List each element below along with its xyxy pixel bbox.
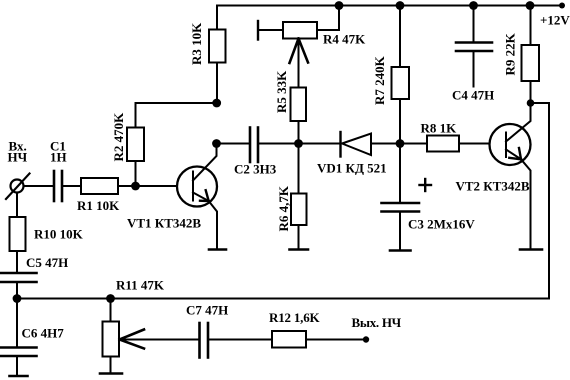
- resistor R6: [291, 194, 307, 226]
- terminal +12V: [559, 3, 565, 9]
- wire R6 bottom lead: [298, 225, 300, 249]
- wire C5 to node: [16, 282, 18, 299]
- wire R8 to VT2 base: [459, 143, 490, 145]
- wiper R4 arrow: [290, 39, 309, 64]
- resistor R8: [427, 136, 459, 152]
- resistor R3: [209, 30, 226, 63]
- svg-text:R11 47K: R11 47K: [116, 278, 165, 293]
- svg-text:R2 470K: R2 470K: [111, 112, 126, 162]
- wire input down to R10: [16, 193, 18, 218]
- input terminal Вх. НЧ: [6, 174, 30, 200]
- svg-text:R4 47K: R4 47K: [323, 32, 366, 47]
- resistor R7: [392, 67, 410, 99]
- capacitor C7: [200, 323, 209, 358]
- wire C3 top lead: [399, 144, 401, 204]
- wire R3 top lead: [216, 6, 218, 30]
- resistor R12: [272, 331, 306, 348]
- wire top +12V rail: [217, 5, 562, 7]
- wire C3 bottom lead: [399, 212, 401, 251]
- wire R2 bottom lead: [135, 161, 137, 186]
- wire C4 top lead: [473, 6, 475, 43]
- wire C4 bottom lead: [473, 51, 475, 87]
- wire R7 bottom lead: [399, 99, 401, 144]
- transistor VT1: [177, 144, 217, 249]
- wire VD1 to node: [371, 143, 400, 145]
- wire R4 right lead to rail: [317, 6, 339, 31]
- svg-text:C4 47Н: C4 47Н: [452, 88, 494, 103]
- wire R7 top lead: [399, 6, 401, 68]
- capacitor C1: [54, 171, 62, 201]
- capacitor C6: [1, 348, 37, 357]
- wire R9 bottom lead: [530, 81, 532, 103]
- wire R8 left lead: [400, 143, 427, 145]
- node R7/C3/R8: [396, 139, 405, 148]
- node C5/C6 feedback: [13, 294, 22, 303]
- svg-text:VD1 КД 521: VD1 КД 521: [317, 161, 387, 176]
- capacitor C5: [1, 273, 37, 282]
- resistor R1: [81, 178, 118, 194]
- svg-text:R3 10K: R3 10K: [189, 22, 204, 65]
- svg-text:R9 22K: R9 22K: [503, 32, 518, 75]
- wire R11 wiper to C7: [120, 339, 200, 341]
- capacitor C3: [382, 203, 420, 212]
- ground VT2 emitter: [520, 248, 542, 251]
- capacitor C2: [250, 128, 258, 163]
- svg-text:VT2 КТ342В: VT2 КТ342В: [456, 179, 530, 194]
- svg-text:R10 10K: R10 10K: [34, 227, 84, 242]
- node R7 rail junction: [396, 1, 405, 10]
- svg-text:C6 4Н7: C6 4Н7: [22, 326, 65, 341]
- wire R9 top lead: [530, 6, 532, 46]
- svg-text:НЧ: НЧ: [8, 150, 28, 165]
- ground R11: [100, 372, 122, 375]
- output terminal Вых. НЧ: [363, 336, 369, 342]
- wire R4 left lead: [258, 29, 283, 31]
- node R5/R6/VD1: [294, 139, 303, 148]
- wire C1 to R1: [62, 185, 81, 187]
- svg-text:R8 1K: R8 1K: [421, 121, 458, 136]
- potentiometer R4: [283, 22, 317, 39]
- wire C7 to R12: [208, 339, 272, 341]
- node C4 rail junction: [469, 1, 478, 10]
- svg-text:C2 3Н3: C2 3Н3: [234, 162, 277, 177]
- svg-text:R6 4,7K: R6 4,7K: [276, 185, 291, 231]
- wire R11 top lead: [110, 299, 112, 322]
- wire R4 wiper to R5: [298, 39, 300, 88]
- wire C6 top lead: [16, 299, 18, 348]
- resistor R9: [522, 45, 540, 81]
- svg-text:R7 240K: R7 240K: [372, 55, 387, 105]
- wire R2 top link: [136, 103, 217, 128]
- ground C6: [10, 375, 28, 378]
- svg-text:R5 33K: R5 33K: [274, 70, 289, 113]
- node R3/R2 junction: [212, 99, 221, 108]
- svg-text:C3 2Мх16V: C3 2Мх16V: [408, 217, 475, 232]
- transistor VT2: [490, 103, 531, 249]
- svg-text:R12 1,6K: R12 1,6K: [269, 310, 320, 325]
- node R4 rail junction: [335, 1, 344, 10]
- svg-text:+12V: +12V: [540, 13, 570, 28]
- wire VT1 collector node to C2: [217, 143, 251, 145]
- resistor R2: [127, 128, 144, 162]
- wire feedback bottom rail: [17, 103, 549, 299]
- wire R5 bottom lead: [298, 121, 300, 144]
- wire node to VD1: [299, 143, 341, 145]
- wire R3 bottom lead: [216, 63, 218, 105]
- node VT1 base: [131, 182, 140, 191]
- resistor R5: [291, 88, 307, 122]
- svg-text:R1 10K: R1 10K: [77, 198, 120, 213]
- svg-text:C5 47Н: C5 47Н: [26, 255, 68, 270]
- diode VD1: [341, 132, 372, 157]
- wire R1 to VT1 base: [118, 185, 178, 187]
- ground VT1 emitter: [209, 248, 226, 251]
- resistor R10: [10, 217, 26, 251]
- svg-text:1Н: 1Н: [50, 150, 67, 165]
- ground C3: [390, 249, 411, 252]
- potentiometer R4 left stop: [257, 21, 259, 40]
- wire C6 bottom lead: [16, 356, 18, 376]
- polarity plus C3: [420, 179, 432, 191]
- ground R6: [290, 248, 309, 251]
- capacitor C4: [456, 43, 492, 52]
- wire C2 to node: [258, 143, 299, 145]
- wiper R11 arrow: [120, 330, 145, 349]
- node VT1 collector: [212, 139, 221, 148]
- node VT2 collector / R9: [527, 99, 535, 107]
- node R11 top: [106, 294, 115, 303]
- wire input to C1: [24, 185, 55, 187]
- wire R12 to output: [306, 339, 366, 341]
- svg-text:C7 47Н: C7 47Н: [186, 303, 228, 318]
- potentiometer R11: [103, 322, 120, 357]
- wire R11 bottom lead: [110, 357, 112, 374]
- node R9 rail junction: [526, 1, 535, 10]
- wire R10 to C5: [16, 251, 18, 272]
- svg-text:VT1 КТ342В: VT1 КТ342В: [127, 216, 201, 231]
- wire R6 top lead: [298, 144, 300, 194]
- svg-text:Вых. НЧ: Вых. НЧ: [352, 315, 402, 330]
